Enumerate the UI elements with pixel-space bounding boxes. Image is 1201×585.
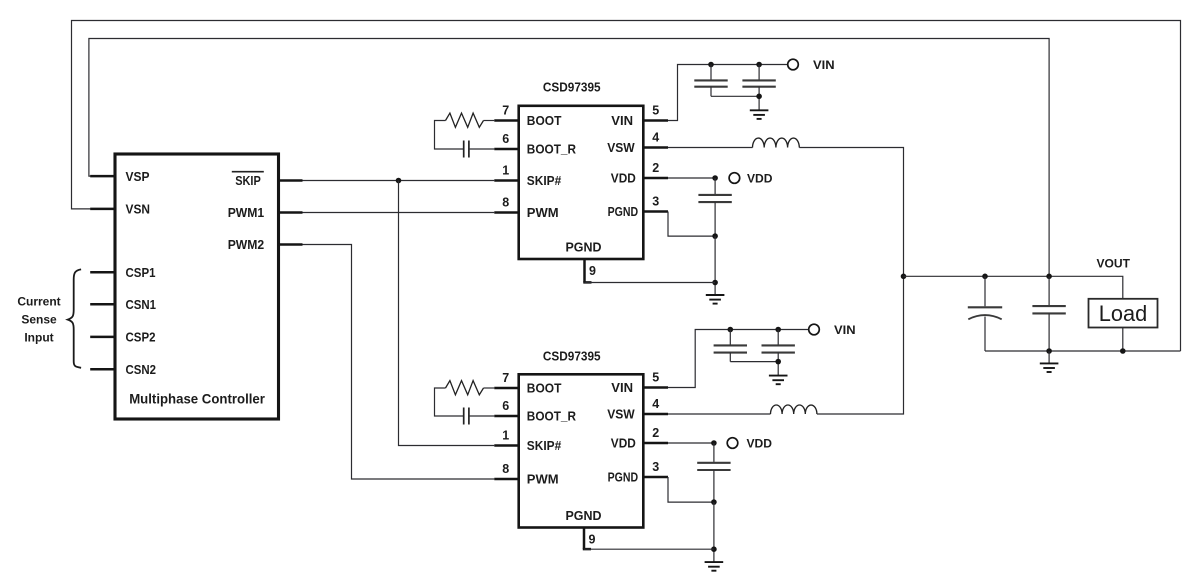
svg-text:Load: Load bbox=[1099, 301, 1148, 326]
ground (U3 input caps) bbox=[769, 376, 788, 385]
U3 pin label VDD bbox=[611, 436, 636, 451]
U3 pin 7 (BOOT) stub bbox=[494, 387, 519, 390]
U3 pin label BOOT_R bbox=[527, 409, 577, 424]
controller pin CSP2 stub bbox=[90, 336, 116, 339]
U3 pin label PGND (pad) bbox=[566, 508, 602, 523]
junction VDD net / C8 bbox=[711, 440, 717, 446]
ground (U3 VDD/PGND) bbox=[705, 562, 724, 571]
controller pin CSN2 stub bbox=[90, 368, 116, 371]
controller pin label PWM2 bbox=[228, 237, 265, 252]
U2 pin label PWM bbox=[527, 205, 559, 220]
U2 pin 8 (PWM) stub bbox=[494, 211, 519, 214]
label VOUT bbox=[1097, 258, 1131, 270]
junction VIN rail / C2 bbox=[708, 62, 714, 68]
wire VOUT rail bbox=[904, 276, 1123, 299]
junction VOUT rail / C10 and sense bbox=[1046, 274, 1052, 280]
svg-text:PWM2: PWM2 bbox=[228, 237, 265, 252]
junction VOUT rail / C9 bbox=[982, 274, 988, 280]
current sense input label bbox=[17, 295, 60, 345]
controller pin PWM2 stub bbox=[278, 243, 303, 246]
svg-text:CSP2: CSP2 bbox=[126, 330, 156, 345]
junction return rail / C10 bbox=[1046, 348, 1052, 354]
wire U3 boot cap to BOOT_R pin 6 bbox=[469, 415, 494, 417]
U3 pin number 1 bbox=[502, 429, 509, 443]
U2 pin 5 (VIN) stub bbox=[643, 119, 668, 122]
svg-text:6: 6 bbox=[502, 399, 509, 413]
svg-text:PGND: PGND bbox=[608, 204, 639, 219]
svg-text:2: 2 bbox=[652, 161, 659, 175]
output capacitor C10 bbox=[1032, 276, 1065, 351]
U2 pin label VDD bbox=[611, 171, 636, 186]
output bulk capacitor C9 (polarized) bbox=[968, 276, 1002, 351]
decoupling capacitor C4 bbox=[698, 178, 731, 236]
U2 pin 1 (SKIP#) stub bbox=[494, 179, 519, 182]
U3 pin 1 (SKIP#) stub bbox=[494, 444, 519, 447]
svg-text:Current: Current bbox=[17, 295, 60, 309]
controller pin label CSP2 bbox=[126, 330, 156, 345]
svg-text:BOOT: BOOT bbox=[527, 113, 562, 128]
U3 pin 2 (VDD) stub bbox=[643, 442, 668, 445]
junction C3 bottom / ground bbox=[756, 94, 762, 100]
svg-text:Sense: Sense bbox=[21, 313, 57, 327]
junction VDD net / C4 bbox=[712, 175, 718, 181]
junction return rail / load bbox=[1120, 348, 1126, 354]
junction VIN rail / C6 bbox=[728, 327, 734, 333]
wire output return rail bbox=[985, 350, 1181, 352]
svg-text:7: 7 bbox=[502, 104, 509, 118]
svg-text:VDD: VDD bbox=[611, 171, 636, 186]
U2 pin number 4 bbox=[652, 131, 659, 145]
inductor L1 bbox=[753, 138, 800, 147]
junction SKIP net bbox=[396, 178, 402, 184]
wire U2 PGND pin3 to ground rail bbox=[668, 212, 715, 237]
svg-text:PWM1: PWM1 bbox=[228, 205, 265, 220]
ground (U2 VDD/PGND) bbox=[706, 295, 725, 304]
terminal VIN (top) bbox=[788, 59, 799, 70]
svg-text:PGND: PGND bbox=[566, 240, 602, 255]
svg-text:4: 4 bbox=[652, 131, 659, 145]
U3 pin 9 (PGND pad) stub bbox=[583, 528, 591, 550]
U3 pin label PGND bbox=[608, 470, 639, 485]
U3 pin 4 (VSW) stub bbox=[643, 413, 668, 416]
U3 pin number 4 bbox=[652, 397, 659, 411]
U3 pin label VSW bbox=[607, 407, 635, 422]
U2 boot resistor to cap link wire bbox=[435, 121, 464, 150]
U3 pin label BOOT bbox=[527, 381, 562, 396]
inductor L2 bbox=[771, 405, 817, 414]
controller pin label CSN2 bbox=[126, 362, 157, 377]
U3 pin 8 (PWM) stub bbox=[494, 478, 519, 481]
U3 pin label VIN bbox=[611, 380, 633, 395]
svg-text:7: 7 bbox=[502, 371, 509, 385]
wire C4 ground down to earth bbox=[714, 236, 716, 295]
junction pin3 / C4 ground bbox=[712, 233, 718, 239]
controller pin VSP stub bbox=[90, 175, 116, 178]
controller pin label VSP bbox=[126, 169, 150, 184]
ground (output) bbox=[1040, 363, 1059, 372]
wire U2 VIN pin5 up to VIN rail bbox=[668, 65, 788, 121]
ground (U2 input caps) bbox=[750, 110, 769, 119]
svg-text:VIN: VIN bbox=[834, 323, 856, 337]
junction pin9 wire / ground wire (U2) bbox=[712, 280, 718, 286]
controller pin label PWM1 bbox=[228, 205, 265, 220]
svg-text:VSW: VSW bbox=[607, 140, 635, 155]
U2 pin 6 (BOOT_R) stub bbox=[494, 148, 519, 151]
U2 boot resistor R1 bbox=[446, 113, 495, 127]
U2 pin label BOOT bbox=[527, 113, 562, 128]
label VIN (bottom) bbox=[834, 323, 856, 337]
wire C2 bottom to C3 bottom bbox=[711, 95, 759, 97]
svg-text:SKIP: SKIP bbox=[235, 173, 261, 188]
U2 pin number 8 bbox=[502, 196, 509, 210]
wire C6 bottom to C7 bottom bbox=[730, 361, 778, 363]
wire PWM2 net: controller PWM2 to U3 pin8 bbox=[303, 245, 495, 480]
svg-text:8: 8 bbox=[502, 196, 509, 210]
U3 pin number 8 bbox=[502, 462, 509, 476]
svg-text:CSP1: CSP1 bbox=[126, 265, 156, 280]
input capacitor C7 bbox=[762, 330, 795, 376]
U2 pin label SKIP# bbox=[527, 173, 562, 188]
U3 pin 3 (PGND) stub bbox=[643, 476, 668, 479]
U3 pin number 5 bbox=[652, 371, 659, 385]
U3 part number label CSD97395 bbox=[543, 349, 601, 363]
svg-text:4: 4 bbox=[652, 397, 659, 411]
wire U3 VDD pin2 to VDD terminal bbox=[668, 442, 714, 444]
U2 pin label PGND (pad) bbox=[566, 240, 602, 255]
U3 pin number 2 bbox=[652, 426, 659, 440]
svg-text:SKIP#: SKIP# bbox=[527, 438, 562, 453]
svg-text:VSP: VSP bbox=[126, 169, 150, 184]
junction VIN rail / C7 bbox=[775, 327, 781, 333]
svg-text:Input: Input bbox=[24, 331, 53, 345]
svg-text:VDD: VDD bbox=[611, 436, 636, 451]
wire U3 VSW pin4 to inductor L2 bbox=[668, 413, 771, 415]
multiphase controller U1 box bbox=[115, 154, 279, 419]
controller pin PWM1 stub bbox=[278, 211, 303, 214]
U2 pin 2 (VDD) stub bbox=[643, 177, 668, 180]
wire load bottom to return rail bbox=[1122, 328, 1124, 352]
U3 boot resistor to cap link wire bbox=[435, 388, 464, 416]
wire SKIP net branch down to U3 pin1 bbox=[399, 181, 495, 446]
svg-text:PGND: PGND bbox=[566, 508, 602, 523]
U2 pin label BOOT_R bbox=[527, 142, 577, 157]
current sense brace bbox=[68, 269, 81, 367]
svg-text:1: 1 bbox=[502, 164, 509, 178]
wire U2 VSW pin4 to inductor L1 bbox=[668, 147, 753, 149]
svg-text:VSN: VSN bbox=[126, 202, 151, 217]
wire L1 to output node bbox=[799, 148, 903, 277]
U3 pin 5 (VIN) stub bbox=[643, 386, 668, 389]
svg-text:CSN1: CSN1 bbox=[126, 297, 157, 312]
wire VSP remote sense (inner loop) node VOUT-sense bbox=[89, 39, 1049, 277]
junction VSW phase node at VOUT rail bbox=[901, 274, 907, 280]
U2 part number label CSD97395 bbox=[543, 81, 601, 95]
wire U3 pin9 to ground net bbox=[584, 548, 714, 550]
U2 pin number 6 bbox=[502, 132, 509, 146]
wire L2 to output node bbox=[817, 276, 904, 414]
U3 boot resistor R2 bbox=[446, 381, 495, 395]
U2 pin label PGND bbox=[608, 204, 639, 219]
U3 pin number 9 bbox=[589, 533, 596, 547]
controller pin label CSN1 bbox=[126, 297, 157, 312]
U2 pin label VIN bbox=[611, 113, 633, 128]
input capacitor C6 bbox=[714, 330, 747, 362]
svg-text:VSW: VSW bbox=[607, 407, 635, 422]
U2 pin 4 (VSW) stub bbox=[643, 146, 668, 149]
controller pin VSN stub bbox=[90, 208, 116, 211]
svg-text:SKIP#: SKIP# bbox=[527, 173, 562, 188]
junction pin3 / C8 ground bbox=[711, 499, 717, 505]
svg-text:3: 3 bbox=[652, 460, 659, 474]
U2 pin 3 (PGND) stub bbox=[643, 210, 668, 213]
U3 pin number 3 bbox=[652, 460, 659, 474]
svg-text:8: 8 bbox=[502, 462, 509, 476]
U2 pin label VSW bbox=[607, 140, 635, 155]
svg-text:5: 5 bbox=[652, 371, 659, 385]
svg-text:PGND: PGND bbox=[608, 470, 639, 485]
controller pin CSP1 stub bbox=[90, 271, 116, 274]
svg-text:BOOT_R: BOOT_R bbox=[527, 142, 577, 157]
svg-text:VDD: VDD bbox=[747, 171, 773, 185]
controller pin SKIP stub bbox=[278, 179, 303, 182]
U3 pin number 7 bbox=[502, 371, 509, 385]
wire U3 VIN pin5 up to VIN rail bbox=[668, 330, 809, 388]
wire U3 PGND pin3 to ground rail bbox=[668, 477, 714, 502]
svg-text:6: 6 bbox=[502, 132, 509, 146]
svg-text:PWM: PWM bbox=[527, 205, 559, 220]
junction pin9 wire / ground wire (U3) bbox=[711, 546, 717, 552]
svg-text:CSN2: CSN2 bbox=[126, 362, 157, 377]
terminal VIN (bottom) bbox=[809, 324, 820, 335]
label VDD (top) bbox=[747, 171, 773, 185]
controller pin label VSN bbox=[126, 202, 151, 217]
controller pin CSN1 stub bbox=[90, 303, 116, 306]
svg-text:9: 9 bbox=[589, 264, 596, 278]
svg-text:VOUT: VOUT bbox=[1097, 258, 1131, 270]
svg-text:BOOT: BOOT bbox=[527, 381, 562, 396]
U2 pin 9 (PGND pad) stub bbox=[583, 260, 591, 283]
svg-text:1: 1 bbox=[502, 429, 509, 443]
input capacitor C3 bbox=[742, 65, 775, 111]
U3 boot capacitor C5 bbox=[464, 408, 469, 425]
decoupling capacitor C8 bbox=[697, 443, 730, 502]
svg-text:9: 9 bbox=[589, 533, 596, 547]
U3 pin number 6 bbox=[502, 399, 509, 413]
svg-text:3: 3 bbox=[652, 195, 659, 209]
wire U2 VDD pin2 to VDD terminal bbox=[668, 177, 715, 179]
U2 pin 7 (BOOT) stub bbox=[494, 119, 519, 122]
U2 boot capacitor C1 bbox=[464, 141, 469, 158]
power stage U2 (CSD97395) box bbox=[519, 106, 644, 259]
U3 pin label SKIP# bbox=[527, 438, 562, 453]
svg-text:VIN: VIN bbox=[611, 113, 633, 128]
terminal VDD (top) bbox=[729, 173, 740, 184]
controller pin label CSP1 bbox=[126, 265, 156, 280]
svg-text:PWM: PWM bbox=[527, 472, 559, 487]
U3 pin label PWM bbox=[527, 472, 559, 487]
svg-text:VIN: VIN bbox=[611, 380, 633, 395]
controller pin label SKIP (active low, overline) bbox=[232, 172, 264, 189]
wire SKIP net: controller SKIP to U2 pin1 bbox=[303, 180, 495, 182]
U2 pin number 3 bbox=[652, 195, 659, 209]
input capacitor C2 bbox=[694, 65, 727, 97]
U2 pin number 7 bbox=[502, 104, 509, 118]
junction C7 bottom / ground bbox=[775, 359, 781, 365]
power stage U3 (CSD97395) box bbox=[519, 374, 644, 527]
svg-text:CSD97395: CSD97395 bbox=[543, 349, 601, 363]
load LOAD1 box bbox=[1089, 299, 1158, 328]
svg-text:2: 2 bbox=[652, 426, 659, 440]
wire U2 pin9 to ground net bbox=[585, 282, 716, 284]
U2 pin number 5 bbox=[652, 104, 659, 118]
svg-text:BOOT_R: BOOT_R bbox=[527, 409, 577, 424]
U3 pin 6 (BOOT_R) stub bbox=[494, 415, 519, 418]
label VDD (bottom) bbox=[747, 436, 773, 450]
wire return rail ground drop bbox=[1048, 351, 1050, 363]
wire VSN remote sense (outer loop) node VOUT-return bbox=[72, 21, 1181, 352]
terminal VDD (bottom) bbox=[727, 438, 738, 449]
U2 pin number 9 bbox=[589, 264, 596, 278]
svg-text:VIN: VIN bbox=[813, 58, 835, 72]
svg-text:CSD97395: CSD97395 bbox=[543, 81, 601, 95]
svg-text:Multiphase Controller: Multiphase Controller bbox=[129, 391, 265, 407]
U2 pin number 1 bbox=[502, 164, 509, 178]
wire PWM1 net: controller PWM1 to U2 pin8 bbox=[303, 212, 495, 214]
U2 pin number 2 bbox=[652, 161, 659, 175]
label VIN (top) bbox=[813, 58, 835, 72]
wire C8 ground down to earth bbox=[713, 502, 715, 562]
junction VIN rail / C3 bbox=[756, 62, 762, 68]
wire U2 boot cap to BOOT_R pin 6 bbox=[469, 148, 494, 150]
svg-text:5: 5 bbox=[652, 104, 659, 118]
svg-text:VDD: VDD bbox=[747, 436, 773, 450]
